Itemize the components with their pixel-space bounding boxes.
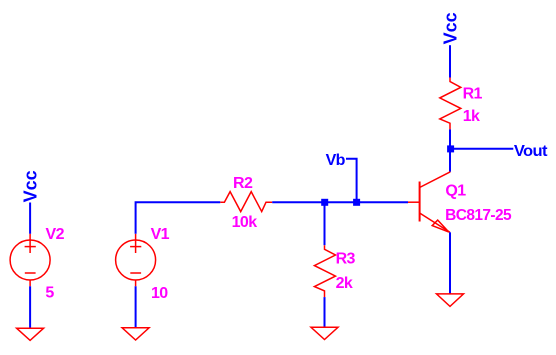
wire R1 to collector junction [449, 129, 451, 171]
ground (under R3) [311, 327, 338, 339]
svg-text:V1: V1 [151, 226, 170, 243]
resistor R3 [314, 245, 335, 297]
junction node at R3 [321, 199, 328, 206]
ground (under V1) [122, 328, 149, 340]
transistor Q1 [408, 172, 450, 233]
net label Vcc (right power symbol) [441, 12, 461, 44]
wire Vcc to R1 [449, 45, 451, 77]
wire R2 to Q1 base [272, 201, 408, 203]
svg-text:Vb: Vb [326, 152, 346, 169]
junction node at Vout [447, 145, 454, 152]
svg-text:R2: R2 [233, 175, 253, 192]
svg-text:BC817-25: BC817-25 [445, 207, 512, 224]
net label Vcc (left power symbol) [21, 170, 41, 202]
wire emitter to ground [449, 232, 451, 294]
svg-text:Vcc: Vcc [21, 170, 41, 202]
wire V1 minus to ground [135, 286, 137, 328]
svg-text:Vcc: Vcc [441, 12, 461, 44]
svg-text:10k: 10k [232, 214, 258, 231]
resistor R1 [440, 78, 461, 130]
svg-text:V2: V2 [46, 226, 65, 243]
junction node at Vb [353, 199, 360, 206]
wire V2 minus to ground [29, 286, 31, 328]
ground (under Q1 emitter) [437, 294, 464, 307]
svg-text:Q1: Q1 [445, 183, 466, 200]
wire V1 plus up and right to R2 [136, 202, 221, 234]
svg-text:R1: R1 [463, 85, 483, 102]
svg-text:5: 5 [45, 285, 54, 302]
svg-text:Vout: Vout [514, 143, 548, 160]
svg-text:R3: R3 [336, 250, 356, 267]
wire R3 to ground [324, 297, 326, 327]
voltage source V2 [10, 234, 50, 286]
wire to Vout [454, 148, 513, 150]
resistor R2 [220, 192, 272, 212]
ground (under V2) [17, 328, 44, 340]
wire Vb tap [346, 159, 357, 202]
svg-text:10: 10 [151, 285, 168, 302]
svg-text:2k: 2k [336, 275, 353, 292]
wire Vcc to V2 plus [29, 203, 31, 234]
svg-text:1k: 1k [463, 108, 480, 125]
wire junction to R3 [324, 202, 326, 245]
voltage source V1 [116, 234, 156, 286]
